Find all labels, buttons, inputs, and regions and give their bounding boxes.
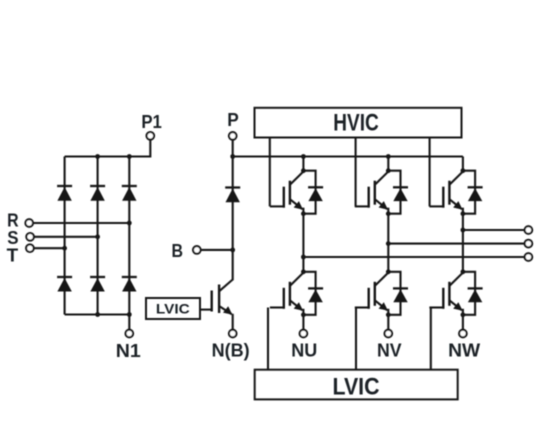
svg-text:N1: N1	[116, 340, 141, 361]
svg-text:NU: NU	[291, 340, 317, 361]
svg-text:NW: NW	[448, 340, 480, 361]
svg-text:P1: P1	[141, 111, 162, 132]
svg-text:LVIC: LVIC	[333, 373, 380, 400]
svg-text:P: P	[227, 109, 239, 130]
svg-text:NV: NV	[377, 340, 402, 361]
svg-text:LVIC: LVIC	[156, 301, 190, 316]
svg-text:T: T	[7, 244, 19, 265]
svg-text:N(B): N(B)	[212, 340, 250, 361]
svg-text:HVIC: HVIC	[333, 110, 379, 137]
svg-text:B: B	[172, 240, 184, 261]
